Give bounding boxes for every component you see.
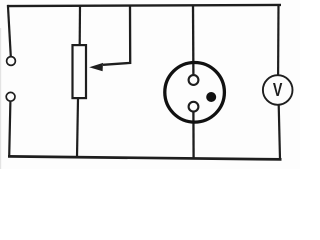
svg-text:V: V	[273, 79, 283, 100]
